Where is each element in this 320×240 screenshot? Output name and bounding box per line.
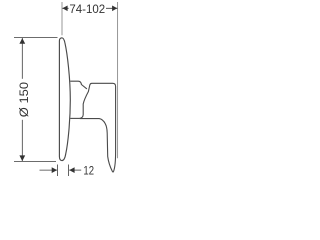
svg-text:Ø 150: Ø 150: [17, 82, 31, 117]
svg-text:12: 12: [83, 163, 94, 177]
svg-text:74-102: 74-102: [69, 2, 105, 16]
